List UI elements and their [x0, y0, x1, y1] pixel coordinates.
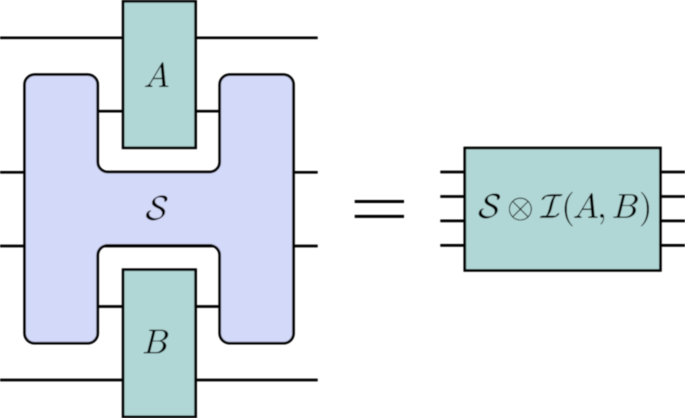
wire stub to B [98, 305, 220, 308]
input wire 4 [440, 244, 465, 247]
label B (right) [613, 194, 638, 218]
label script S (right) [479, 193, 500, 218]
right parenthesis [641, 192, 649, 226]
label A (right) [574, 193, 598, 218]
input wire 2 [440, 195, 465, 198]
input wire 1 [440, 172, 685, 245]
box S tensor I of A,B [465, 148, 661, 270]
label script S [146, 195, 167, 220]
equals sign [355, 200, 404, 218]
wire bottom (behind box B) [0, 379, 318, 382]
wire mid-upper (behind comb S) [0, 171, 318, 174]
wire stub to A [98, 110, 220, 113]
wire top (behind box A) [0, 36, 318, 39]
otimes symbol [509, 198, 532, 221]
label B [144, 330, 169, 354]
output wire 3 [660, 220, 685, 223]
wire mid-lower (behind comb S) [0, 245, 318, 248]
box B [123, 270, 196, 417]
label A [145, 62, 169, 87]
input wire 3 [440, 220, 465, 223]
comb S body [25, 75, 294, 344]
label script I [540, 194, 563, 218]
box A [123, 1, 196, 148]
output wire 4 [660, 244, 685, 247]
comma [600, 214, 604, 224]
output wire 2 [660, 195, 685, 198]
left parenthesis [565, 192, 573, 226]
output wire 1 [660, 171, 685, 174]
